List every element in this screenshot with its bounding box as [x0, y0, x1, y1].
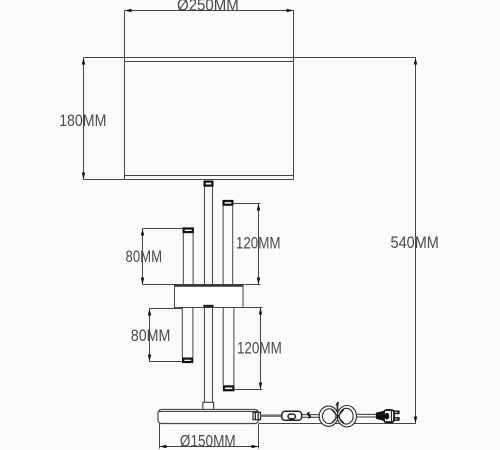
central rod top cap: [205, 182, 213, 186]
svg-text:180MM: 180MM: [59, 112, 106, 130]
lamp shade: [125, 11, 294, 180]
svg-text:120MM: 120MM: [237, 339, 282, 357]
80MM upper arrows: [141, 229, 144, 236]
upper left tube: [183, 233, 193, 284]
lower right tube cap: [224, 386, 233, 390]
svg-text:120MM: 120MM: [236, 234, 281, 252]
svg-text:540MM: 540MM: [391, 234, 439, 252]
80MM lower arrows: [148, 309, 151, 316]
wire from coil to plug: [357, 414, 377, 417]
cord grommet connector at base: [253, 412, 260, 419]
shade bottom line with extension to 180MM dim: [84, 179, 294, 181]
120MM lower arrows: [259, 308, 262, 315]
svg-text:Ø150MM: Ø150MM: [180, 432, 236, 450]
central rod: [205, 187, 213, 403]
center disc hub: [175, 285, 244, 308]
svg-text:80MM: 80MM: [126, 248, 163, 266]
250MM arrows: [125, 9, 132, 12]
upper right tube cap: [224, 201, 233, 205]
dimension 250MM line: [125, 10, 294, 12]
upper left tube cap: [184, 229, 193, 233]
dimension labels: [59, 0, 439, 450]
inline switch: [282, 411, 302, 420]
dimension arrows: [82, 9, 417, 448]
540MM arrows: [414, 58, 417, 65]
dimension 80MM lower: [150, 309, 183, 362]
base: [158, 410, 259, 424]
dimension 150MM: [160, 424, 259, 449]
shade top line with extensions to 180MM and 540MM dims: [84, 57, 416, 59]
180MM arrows: [82, 58, 85, 65]
dimension 120MM lower: [235, 308, 263, 390]
plug: [376, 410, 399, 422]
dimension 80MM upper: [143, 229, 183, 285]
svg-text:80MM: 80MM: [131, 327, 171, 345]
wire from switch to coil with squiggle: [302, 415, 337, 418]
lower right tube: [223, 307, 234, 385]
base bottom extension to 540MM dim: [259, 423, 416, 425]
upper right tube: [223, 206, 233, 285]
wire from base to switch: [261, 414, 282, 417]
lower left tube: [182, 307, 193, 357]
svg-text:Ø250MM: Ø250MM: [177, 0, 239, 15]
150MM arrows: [160, 445, 167, 448]
coiled cord: [319, 402, 356, 427]
cord squiggle: [308, 413, 310, 418]
rod collar on base: [203, 402, 214, 409]
dimension 540MM line: [415, 58, 417, 424]
dimension 120MM upper: [234, 204, 261, 285]
lower left tube cap: [183, 359, 192, 362]
dimension 180MM line: [83, 58, 85, 180]
120MM upper arrows: [257, 204, 260, 211]
